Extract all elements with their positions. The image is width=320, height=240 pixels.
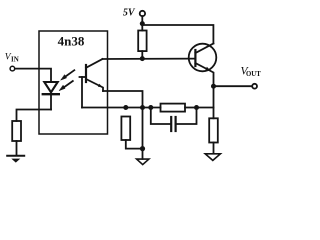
svg-text:4n38: 4n38	[58, 34, 85, 49]
junction emitter line crossing	[140, 105, 145, 110]
wire R3 bottom to ground node	[126, 140, 143, 149]
wire phototransistor emitter to ground line	[103, 91, 143, 149]
junction RC left node	[148, 105, 153, 110]
phototransistor base stub	[80, 76, 87, 78]
wire collector node to Q1 base (node B)	[103, 58, 196, 60]
ground (earth style, left)	[7, 156, 24, 163]
wire emitter node down to R5	[213, 86, 215, 118]
wire ground node down	[142, 149, 144, 159]
junction node B	[140, 56, 145, 61]
terminal 5V	[140, 11, 145, 16]
terminal Vout	[252, 84, 257, 89]
transistor Q1 collector	[195, 44, 213, 54]
wire R5 to ground	[213, 143, 215, 154]
phototransistor of 4n38: base bar	[85, 65, 87, 82]
capacitor C1	[171, 117, 175, 131]
wire R2 to node B	[141, 51, 143, 59]
junction emitter node	[211, 84, 216, 89]
svg-text:OUT: OUT	[246, 71, 261, 78]
resistor R4 (horizontal, in RC pair)	[161, 104, 186, 112]
light arrow (lower)	[59, 81, 73, 91]
junction RC right node	[194, 105, 199, 110]
wire RC right node to emitter line	[197, 107, 214, 109]
LED D1 (emitter diode of 4n38)	[43, 82, 59, 94]
transistor Q1 base bar	[194, 50, 196, 66]
junction 5V node	[140, 21, 145, 26]
optocoupler U1 4n38 package outline	[39, 31, 108, 134]
wire emitter to Vout	[214, 85, 253, 87]
wire bottom net (base return)	[82, 107, 161, 109]
svg-text:IN: IN	[11, 56, 19, 64]
transistor Q1 emitter	[195, 63, 213, 86]
wire 5V down	[141, 16, 143, 30]
ground (triangle, middle)	[137, 159, 149, 165]
junction ground node	[140, 146, 145, 151]
resistor R2 (5V to node B)	[138, 31, 146, 52]
wire R4 to RC right node	[185, 107, 197, 109]
resistor R5 (emitter load)	[209, 118, 218, 142]
wire base down to bottom net	[81, 77, 83, 108]
wire capacitor branch left	[151, 108, 171, 125]
wire 5V rail to Q1 collector	[142, 25, 213, 44]
wire cathode to R1	[17, 110, 52, 122]
phototransistor emitter arrowhead	[98, 84, 103, 88]
terminal Vin	[10, 66, 15, 71]
light arrow (upper)	[61, 70, 75, 80]
wire LED cathode down	[50, 94, 52, 109]
phototransistor emitter lead	[86, 79, 103, 91]
transistor Q1 circle	[189, 44, 217, 72]
phototransistor collector lead	[86, 59, 103, 68]
resistor R3 (base to ground)	[121, 117, 130, 141]
wire Vin to LED anode	[15, 69, 51, 82]
ground (triangle, right)	[205, 154, 220, 161]
transistor Q1 emitter arrowhead	[205, 67, 211, 71]
junction R3 top	[123, 105, 128, 110]
resistor R1	[12, 121, 21, 141]
wire capacitor branch right	[176, 108, 197, 125]
svg-text:5V: 5V	[123, 8, 136, 19]
wire R1 to ground	[16, 141, 18, 156]
